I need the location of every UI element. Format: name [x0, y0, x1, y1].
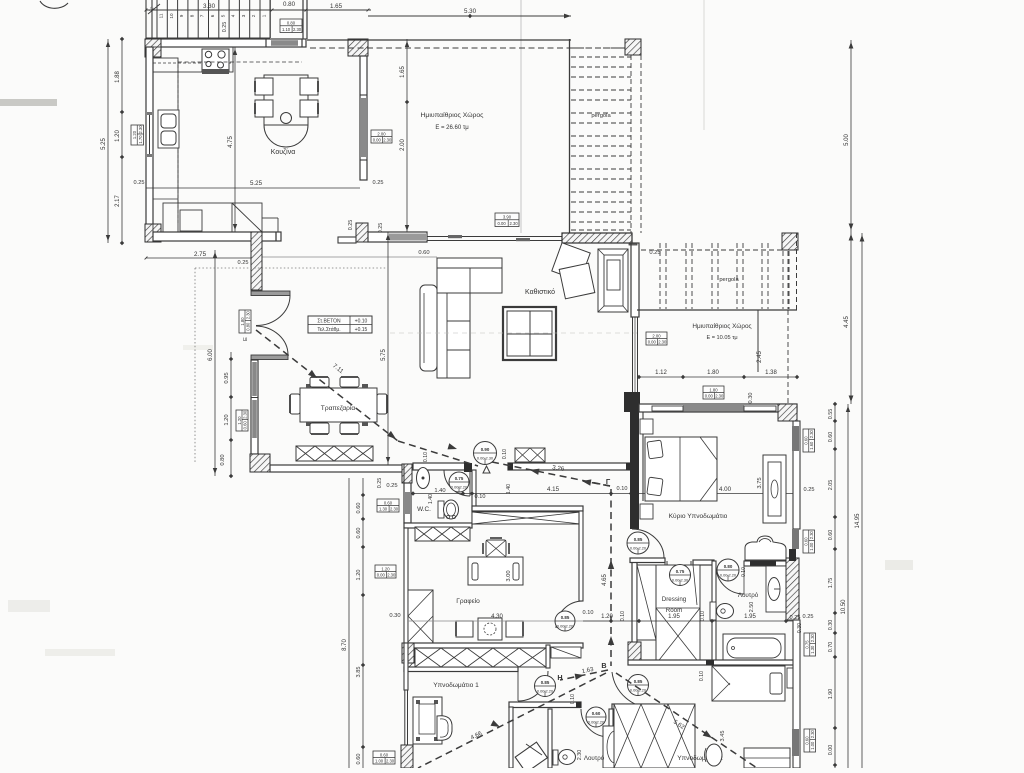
svg-text:0.10: 0.10 — [699, 671, 705, 681]
escape route delta-gamma — [492, 462, 610, 486]
svg-text:0.25: 0.25 — [238, 260, 249, 266]
escape route B-H — [560, 670, 608, 680]
bed2 pillow — [770, 673, 782, 694]
svg-text:0.80: 0.80 — [220, 454, 226, 465]
bath vanity — [745, 536, 786, 560]
dim 5.25 kitchen — [146, 187, 360, 189]
svg-text:0.00 2.30: 0.00 2.30 — [477, 455, 494, 460]
svg-text:4.75: 4.75 — [228, 136, 234, 148]
bedroom south wall — [630, 558, 665, 563]
svg-text:2.30: 2.30 — [810, 729, 815, 738]
svg-text:0.25: 0.25 — [222, 22, 228, 33]
dressing hatched column — [628, 642, 641, 662]
wc west wall — [404, 483, 411, 523]
sofa chaise top — [437, 258, 502, 293]
svg-text:1.20: 1.20 — [237, 416, 242, 425]
dim 4.30 office — [408, 620, 612, 622]
dressing west wall — [632, 562, 637, 643]
svg-text:0.60: 0.60 — [356, 503, 362, 514]
svg-text:3: 3 — [241, 14, 246, 17]
svg-text:0.60: 0.60 — [356, 528, 362, 539]
svg-text:0.60: 0.60 — [384, 500, 393, 505]
office north wall — [472, 506, 583, 511]
svg-text:0.10: 0.10 — [617, 486, 628, 492]
coffee table — [503, 307, 556, 360]
bed2 bed — [712, 666, 785, 701]
dining table — [300, 388, 377, 422]
small bath door bubble — [586, 707, 606, 727]
upper cabinets dashed — [178, 61, 302, 63]
svg-text:Λουτρό: Λουτρό — [738, 592, 759, 599]
bed2 desk — [744, 748, 790, 768]
svg-text:0.00 2.20: 0.00 2.20 — [451, 484, 468, 489]
sideboard living — [515, 448, 545, 462]
svg-text:0.00: 0.00 — [498, 221, 507, 226]
svg-text:0.10: 0.10 — [583, 610, 594, 616]
office door arc — [556, 601, 583, 628]
dim 5.30 top — [368, 15, 571, 17]
pergola 1 dashed beams — [571, 56, 631, 58]
label box right 1 — [803, 429, 815, 452]
office west wall — [404, 528, 408, 643]
bed1 armchair — [437, 716, 452, 741]
svg-text:0.00 2.20: 0.00 2.20 — [588, 719, 605, 724]
kitchen bottom counter — [163, 203, 262, 232]
svg-text:14.95: 14.95 — [855, 513, 861, 529]
svg-text:3.30: 3.30 — [203, 3, 216, 10]
bath door arc — [716, 566, 744, 594]
svg-text:0.10: 0.10 — [700, 611, 706, 621]
svg-text:5.25: 5.25 — [101, 138, 107, 150]
kitchen NW hatched column — [145, 39, 161, 57]
label box sliding door — [495, 213, 519, 227]
svg-text:0.00: 0.00 — [828, 745, 834, 756]
dim 5.75 — [387, 232, 389, 465]
bed1 shelf right — [551, 647, 581, 658]
svg-text:1.95: 1.95 — [668, 614, 680, 620]
svg-text:1.95: 1.95 — [744, 614, 756, 620]
svg-text:0.00 2.30: 0.00 2.30 — [672, 577, 689, 582]
corridor bottom wall right — [612, 704, 656, 709]
dim 5.25 left — [107, 39, 109, 243]
svg-text:0.25: 0.25 — [803, 614, 814, 620]
svg-text:Room: Room — [666, 607, 683, 614]
dining chair left — [290, 394, 300, 414]
svg-text:2.30: 2.30 — [383, 137, 392, 142]
svg-text:0.60: 0.60 — [380, 752, 389, 757]
svg-text:0.10: 0.10 — [423, 452, 429, 462]
svg-text:Καθιστικό: Καθιστικό — [525, 288, 555, 296]
bedroom2 east wall — [793, 620, 800, 768]
semi-open 2 boundary — [637, 309, 797, 311]
kitchen SW hatched column — [145, 224, 161, 242]
bed1 bed — [413, 697, 442, 744]
small bath tub — [603, 726, 628, 768]
armchair diamond 1 — [552, 243, 590, 281]
kitchen top counter — [153, 47, 233, 72]
bedroom east wall — [793, 421, 800, 529]
bath toilet — [710, 602, 716, 620]
wc door arc — [444, 470, 470, 496]
bed2 closet — [614, 704, 695, 768]
east wing west window — [632, 317, 634, 392]
dim dining left col — [230, 352, 232, 476]
bedroom NE hatched corner — [778, 404, 797, 421]
dim 8.70 — [348, 478, 350, 768]
dim semi-open vertical — [406, 39, 408, 233]
bath2 south wall — [628, 660, 797, 665]
svg-text:0.60: 0.60 — [805, 736, 810, 745]
dim 2.75 — [146, 257, 252, 259]
svg-text:2.30: 2.30 — [809, 530, 814, 539]
svg-text:3.00: 3.00 — [506, 570, 512, 581]
svg-text:0.00: 0.00 — [377, 572, 386, 577]
small bath east wall — [609, 709, 613, 768]
bedroom west wall corner — [624, 392, 640, 412]
svg-text:2.05: 2.05 — [828, 480, 834, 491]
svg-text:2.50: 2.50 — [749, 602, 755, 613]
svg-text:1.90: 1.90 — [828, 689, 834, 700]
label box kitchen west window — [131, 125, 144, 145]
pergola 2 dashed beams — [659, 243, 661, 309]
svg-text:E = 26.60 τμ: E = 26.60 τμ — [435, 125, 469, 131]
label box bedroom window — [703, 386, 724, 399]
svg-text:3.90: 3.90 — [503, 215, 512, 220]
svg-text:0.10: 0.10 — [741, 567, 747, 577]
kitchen south wall — [153, 232, 281, 241]
svg-text:0.25: 0.25 — [790, 615, 801, 621]
dining south wall — [270, 465, 403, 472]
scan artifacts — [520, 0, 522, 233]
svg-text:2.00: 2.00 — [377, 131, 386, 136]
svg-text:0.80: 0.80 — [724, 564, 733, 569]
semi-open 2 inner line — [757, 310, 759, 372]
svg-text:2.30: 2.30 — [138, 125, 143, 134]
corridor bottom wall left — [509, 702, 581, 708]
svg-text:3.75: 3.75 — [757, 477, 763, 488]
bed1 east wall lower — [509, 707, 513, 768]
svg-text:10.50: 10.50 — [841, 599, 847, 615]
svg-text:Τραπεζαρία: Τραπεζαρία — [321, 404, 356, 412]
svg-text:9: 9 — [179, 14, 184, 17]
svg-text:2.30: 2.30 — [245, 310, 250, 319]
dressing door jambs — [664, 561, 666, 594]
bedroom west wall black — [630, 412, 639, 529]
svg-text:0.85: 0.85 — [561, 615, 570, 620]
svg-text:5.25: 5.25 — [250, 180, 263, 187]
svg-text:0.30: 0.30 — [748, 393, 754, 404]
svg-text:Λουτρό: Λουτρό — [584, 755, 605, 762]
entry door double — [251, 291, 290, 296]
svg-text:+0.15: +0.15 — [355, 327, 368, 333]
bed1 door bubble — [535, 676, 556, 697]
office desk — [468, 557, 523, 585]
svg-text:0.00 2.20: 0.00 2.20 — [537, 688, 554, 693]
svg-text:0.10: 0.10 — [620, 611, 626, 621]
bed1 door arc — [518, 671, 548, 701]
svg-text:pergola: pergola — [591, 113, 611, 119]
kitchen sink — [158, 110, 179, 148]
svg-text:0.90: 0.90 — [481, 447, 490, 452]
svg-text:0.25: 0.25 — [134, 180, 145, 186]
svg-text:8.70: 8.70 — [342, 639, 348, 651]
svg-text:0.10: 0.10 — [502, 449, 508, 459]
svg-text:1.80: 1.80 — [707, 370, 719, 376]
fireplace / tv unit — [598, 249, 628, 312]
svg-text:0.60: 0.60 — [242, 420, 247, 429]
svg-text:0.00 2.20: 0.00 2.20 — [557, 623, 574, 628]
svg-text:5.75: 5.75 — [381, 349, 387, 361]
svg-text:0.60: 0.60 — [804, 537, 809, 546]
dining chair bottom2 — [340, 423, 359, 434]
kitchen west wall — [146, 47, 153, 232]
dotted guide lines — [195, 267, 388, 269]
armchair diamond 2 — [559, 263, 595, 299]
main bedroom north wall — [639, 404, 797, 412]
svg-text:B: B — [601, 661, 606, 670]
kitchen left counter — [153, 58, 178, 232]
dining S hatched column — [402, 464, 412, 483]
dining chair top2 — [340, 377, 359, 387]
svg-text:0.00: 0.00 — [705, 393, 714, 398]
semi-open dashed line — [310, 47, 640, 49]
svg-text:1.30: 1.30 — [810, 645, 815, 654]
wall stub stairs east — [302, 0, 304, 39]
main bed — [645, 437, 717, 501]
office chair b1 — [456, 621, 473, 637]
corridor dim line — [583, 620, 800, 622]
dim left col2 — [121, 39, 123, 243]
kitchen chair 4 — [300, 100, 318, 117]
svg-text:2.30: 2.30 — [510, 221, 519, 226]
svg-text:2.00: 2.00 — [652, 333, 661, 338]
svg-text:0.00: 0.00 — [373, 137, 382, 142]
svg-text:4.30: 4.30 — [491, 614, 503, 620]
bed1 SW hatched corner — [401, 745, 413, 768]
semi-open right boundary — [569, 39, 571, 233]
bed2 nightstand — [787, 668, 797, 688]
svg-text:1.75: 1.75 — [828, 578, 834, 589]
escape route B-bed1 — [418, 673, 606, 768]
label box right 3 — [804, 633, 816, 656]
office chair b2 — [506, 621, 523, 637]
svg-text:0.10: 0.10 — [475, 494, 486, 500]
svg-text:Ημιυπαίθριος Χώρος: Ημιυπαίθριος Χώρος — [692, 322, 751, 330]
svg-text:0.10: 0.10 — [570, 694, 576, 704]
svg-text:2: 2 — [251, 14, 256, 17]
main bedroom door arc — [632, 529, 664, 558]
bed1 corner chair — [515, 742, 547, 772]
kitchen chair 2 — [300, 78, 318, 95]
kitchen chair 1 — [255, 78, 273, 95]
wc door bubble — [449, 472, 469, 492]
escape route B-bed2 — [616, 673, 757, 768]
svg-text:1.40: 1.40 — [428, 494, 434, 504]
svg-text:0.75: 0.75 — [676, 569, 685, 574]
living north sliding door — [368, 232, 427, 242]
nightstand 2 — [640, 504, 653, 519]
bed1 north closet — [415, 648, 546, 667]
bed2 chair — [706, 744, 722, 766]
svg-text:0.95: 0.95 — [224, 372, 230, 383]
svg-text:H: H — [557, 673, 562, 682]
pergola 1 hatched column — [625, 39, 641, 55]
nightstand 1 — [640, 419, 653, 434]
svg-text:5.30: 5.30 — [464, 8, 477, 15]
svg-text:3.45: 3.45 — [720, 731, 726, 742]
label box right 4 — [804, 729, 816, 752]
svg-text:1.00: 1.00 — [375, 758, 384, 763]
escape route entry-dining — [256, 330, 398, 441]
dressing door arc — [667, 563, 693, 590]
svg-text:5.00: 5.00 — [844, 134, 850, 146]
svg-text:0.55: 0.55 — [828, 409, 834, 420]
svg-text:2.30: 2.30 — [386, 758, 395, 763]
dim line living mid — [390, 332, 637, 334]
bed1 north wall — [408, 643, 583, 648]
svg-text:5: 5 — [220, 14, 225, 17]
svg-text:W.C.: W.C. — [417, 506, 431, 513]
north symbol (cut) — [40, 1, 68, 8]
dressing wardrobe big — [656, 565, 700, 664]
kitchen chair 3 — [255, 100, 273, 117]
main bedroom door bubble — [627, 532, 649, 554]
escape route dining-delta — [398, 441, 478, 466]
svg-text:4.45: 4.45 — [844, 316, 850, 328]
svg-text:0.60: 0.60 — [804, 436, 809, 445]
dining west wall — [251, 360, 258, 454]
svg-text:2.30: 2.30 — [293, 27, 302, 32]
svg-text:0.25: 0.25 — [377, 478, 383, 489]
svg-text:1.20: 1.20 — [356, 570, 362, 581]
svg-text:1.20: 1.20 — [381, 566, 390, 571]
svg-text:0.85: 0.85 — [634, 679, 643, 684]
dim 4.45 right — [850, 232, 852, 404]
dining chair right — [377, 394, 387, 414]
kitchen NE hatched column — [348, 39, 368, 56]
wc top wall — [413, 463, 468, 470]
svg-text:1.65: 1.65 — [330, 3, 343, 10]
svg-text:2.30: 2.30 — [810, 633, 815, 642]
wc east wall — [472, 470, 476, 523]
svg-text:0.25: 0.25 — [649, 250, 660, 256]
bed2 door arc — [612, 672, 653, 708]
svg-text:2.30: 2.30 — [242, 410, 247, 419]
bath east hatched wall — [786, 558, 799, 620]
bath door bubble — [717, 559, 739, 581]
svg-text:2.17: 2.17 — [115, 195, 121, 207]
svg-text:1.70: 1.70 — [138, 135, 143, 144]
svg-text:pergola: pergola — [719, 277, 739, 283]
dining sideboard — [296, 446, 373, 461]
svg-text:2.30: 2.30 — [658, 339, 667, 344]
svg-text:1.20: 1.20 — [132, 130, 137, 139]
svg-text:Κουζίνα: Κουζίνα — [271, 148, 296, 156]
label box wc window — [377, 499, 399, 512]
svg-text:1.20: 1.20 — [115, 130, 121, 142]
bath north wall — [744, 561, 786, 566]
kitchen SE hatched column — [356, 223, 368, 242]
east wing west wall upper — [631, 243, 639, 317]
svg-text:3.85: 3.85 — [356, 667, 362, 678]
svg-text:0.00: 0.00 — [648, 339, 657, 344]
bath tub — [723, 634, 785, 662]
small bath west wall — [548, 709, 552, 768]
kitchen table — [264, 75, 308, 125]
svg-text:Ημιυπαίθριος Χώρος: Ημιυπαίθριος Χώρος — [421, 111, 485, 119]
svg-text:2.30: 2.30 — [577, 750, 583, 761]
svg-text:2.30: 2.30 — [390, 506, 399, 511]
dim 14.95 right — [861, 233, 863, 768]
svg-text:6.00: 6.00 — [208, 349, 214, 361]
svg-text:Υπνοδωμάτιο 1: Υπνοδωμάτιο 1 — [433, 681, 479, 689]
small bath door arc — [581, 709, 609, 737]
living north hatched wall — [562, 233, 632, 243]
svg-text:1.30: 1.30 — [379, 506, 388, 511]
svg-text:0.85: 0.85 — [541, 680, 550, 685]
svg-text:1.60: 1.60 — [809, 441, 814, 450]
sofa vertical seats — [437, 293, 470, 378]
svg-text:Κύριο Υπνοδωμάτιο: Κύριο Υπνοδωμάτιο — [669, 512, 728, 520]
hall dim line — [413, 493, 797, 495]
svg-text:1.20: 1.20 — [224, 414, 230, 425]
kitchen north wall — [146, 39, 306, 47]
office table — [478, 618, 502, 640]
bedroom dresser — [763, 455, 786, 523]
svg-text:0.30: 0.30 — [828, 620, 834, 631]
escape arrow gamma west — [583, 481, 610, 486]
opening bubble delta — [474, 442, 497, 465]
svg-text:4.65: 4.65 — [602, 574, 608, 586]
pergola 2 hatched column — [782, 233, 798, 250]
wc south wall — [404, 523, 472, 528]
dressing east wall — [712, 561, 716, 664]
svg-text:2.30: 2.30 — [387, 572, 396, 577]
sofa armrest — [420, 285, 437, 371]
label box bed1 window — [373, 751, 395, 764]
kitchen stove — [202, 49, 229, 72]
svg-text:0.00 2.20: 0.00 2.20 — [630, 545, 647, 550]
svg-text:0.80: 0.80 — [245, 322, 250, 331]
office chair — [486, 540, 506, 557]
svg-text:1.38: 1.38 — [765, 370, 777, 376]
svg-text:0.60: 0.60 — [418, 250, 429, 256]
bed1 hatched corner — [402, 643, 414, 663]
svg-text:1.80: 1.80 — [240, 317, 245, 326]
dim 6.00 left — [214, 250, 216, 476]
svg-text:1.40: 1.40 — [506, 484, 512, 494]
kitchen east wall — [360, 56, 367, 180]
dim left col office — [362, 478, 364, 768]
living south wall — [508, 463, 631, 470]
svg-text:4: 4 — [231, 14, 236, 17]
svg-text:1.80: 1.80 — [709, 387, 718, 392]
dim 0.60 living — [252, 256, 437, 258]
svg-text:0.00 2.20: 0.00 2.20 — [720, 572, 737, 577]
bath washbasin — [766, 566, 786, 612]
svg-text:Γραφείο: Γραφείο — [456, 597, 480, 605]
svg-text:10: 10 — [169, 13, 174, 19]
svg-text:1.88: 1.88 — [115, 71, 121, 83]
dim line semi-open 2 — [639, 376, 797, 378]
svg-text:Τελ.Στάθμ.: Τελ.Στάθμ. — [317, 326, 340, 333]
dining chair top1 — [310, 377, 329, 387]
svg-text:0.30: 0.30 — [797, 623, 803, 633]
svg-text:4.00: 4.00 — [719, 486, 732, 493]
main bed headboard — [642, 412, 644, 501]
wc toilet — [438, 501, 444, 518]
svg-text:0.85: 0.85 — [634, 537, 643, 542]
